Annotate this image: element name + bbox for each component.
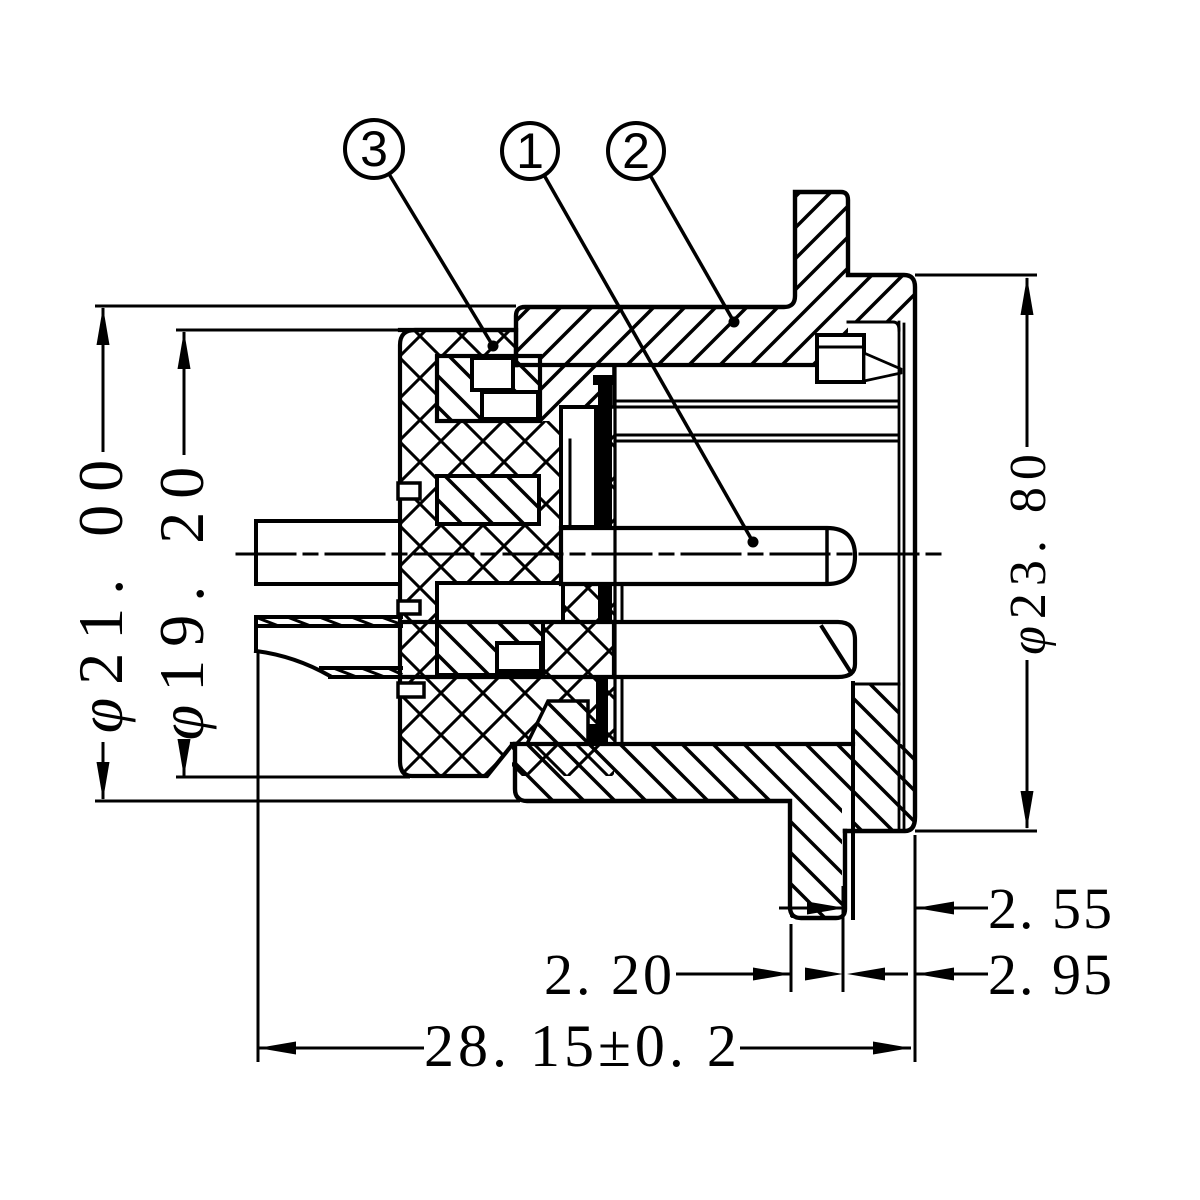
body shell hatch above clip: [816, 307, 848, 335]
center pin cap line: [825, 528, 829, 584]
body inner edge verticals: [613, 365, 616, 744]
shield barrel wall lines through insulator: [401, 620, 614, 624]
svg-text:φ21. 00: φ21. 00: [65, 447, 136, 733]
clip block: [817, 335, 864, 382]
shield barrel tube: [614, 622, 855, 677]
extension line phi21 bottom: [95, 800, 520, 803]
horn hatch ticks top strip: [258, 618, 400, 625]
clip block inner line: [817, 346, 864, 349]
extension line phi23 top: [915, 274, 1037, 277]
balloon 3: [345, 120, 403, 178]
dimension phi23.80 line: [1026, 278, 1029, 447]
dimension phi19.20 line: [183, 332, 186, 455]
body shell hatch top bar: [516, 307, 816, 365]
insulator notch lower: [398, 683, 424, 697]
body shell hatch wall above bottom bar: [853, 683, 899, 744]
socket sleeve black top tab: [593, 375, 616, 385]
insulator top extension edge: [400, 328, 516, 332]
dimension 2.95: [676, 973, 791, 976]
upper contact block: [437, 356, 540, 421]
bottom bar top edge: [512, 742, 853, 746]
bore step lines upper pair2: [615, 434, 897, 437]
body shell hatch top flange: [795, 192, 848, 307]
balloon 2: [608, 123, 664, 179]
socket sleeve hook: [588, 724, 598, 742]
body top bar bottom edge: [516, 363, 817, 367]
body shell hatch bottom flange: [790, 801, 842, 918]
socket sleeve black bar upper: [598, 375, 612, 527]
extension line phi19 bottom: [176, 776, 410, 779]
insulator notch upper: [398, 483, 420, 499]
svg-text:3: 3: [360, 121, 388, 177]
extension line phi23 bottom: [915, 830, 1037, 833]
extension line phi21 top: [95, 305, 516, 308]
svg-text:2. 55: 2. 55: [988, 876, 1114, 941]
insulator notch middle: [398, 601, 420, 614]
dimension 28.15: [257, 652, 260, 1062]
center line: [237, 553, 940, 556]
socket sleeve black bar lower: [596, 677, 608, 742]
body shell hatch right wall lower: [853, 744, 915, 831]
socket sleeve black bar middle: [598, 584, 612, 622]
svg-text:2: 2: [622, 123, 650, 179]
wall inner verticals: [898, 322, 901, 831]
lower cavity white window: [437, 583, 563, 622]
upper contact white pocket B: [482, 392, 538, 419]
balloon 1: [502, 123, 558, 179]
lower trapezoid insert: [527, 701, 588, 744]
horn flare outline: [256, 617, 401, 677]
dimension phi21.00 line: [102, 308, 105, 452]
upper contact white pocket A: [472, 358, 513, 390]
shield barrel end diagonal: [822, 627, 850, 671]
insulator crosshatch body: [400, 330, 614, 776]
lower retainer white pocket: [497, 643, 541, 671]
svg-text:1: 1: [516, 123, 544, 179]
lower cavity hatched retainer: [437, 622, 543, 675]
body outline top: [516, 192, 915, 831]
body lip under top bar: [540, 365, 614, 421]
horn hatch ticks bottom strip: [336, 669, 401, 676]
clip wedge: [864, 353, 901, 381]
body shell hatch right step: [848, 275, 915, 322]
dimension 2.55: [779, 907, 843, 910]
body outline bottom bar and flange: [515, 744, 845, 918]
svg-text:2. 95: 2. 95: [988, 942, 1114, 1007]
svg-text:2. 20: 2. 20: [544, 942, 675, 1007]
upper white slot: [561, 407, 596, 527]
svg-text:28. 15±0. 2: 28. 15±0. 2: [424, 1013, 741, 1079]
insulator outline: [400, 330, 516, 776]
upper retainer block R2: [437, 476, 539, 524]
svg-text:φ23. 80: φ23. 80: [1000, 447, 1057, 655]
bottom bar right vertical: [851, 683, 855, 918]
center pin shaft: [561, 528, 855, 584]
extension line phi19 top: [176, 329, 410, 332]
bore step lines upper pair1: [615, 400, 897, 403]
center pin tail: [256, 521, 400, 584]
flange gap inner vertical: [844, 831, 847, 909]
wall inner top corner: [848, 322, 899, 330]
svg-text:φ19. 20: φ19. 20: [146, 454, 217, 740]
extension ticks: [790, 924, 793, 992]
body shell hatch bottom bar: [515, 744, 853, 801]
